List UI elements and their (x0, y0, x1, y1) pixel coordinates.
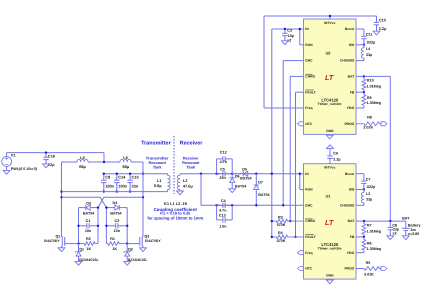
svg-text:CHRG: CHRG (305, 75, 315, 79)
svg-text:Freq: Freq (305, 106, 312, 110)
wire tank bottom row B (62, 191, 168, 193)
svg-text:NTC: NTC (305, 267, 312, 271)
node supply junction (45, 151, 47, 153)
node B row A junction (142, 173, 144, 175)
wire BAT net vertical (389, 76, 391, 221)
svg-text:BAT54: BAT54 (110, 211, 122, 215)
svg-text:GND: GND (326, 129, 334, 133)
ground (402, 236, 409, 240)
wire supply to L5/L6 (103, 153, 105, 162)
wire FBG row U1 (356, 252, 364, 254)
svg-text:BAT: BAT (348, 75, 355, 79)
wire BAT row U2 (356, 75, 390, 77)
svg-text:150n: 150n (105, 184, 114, 189)
node SW U2 (363, 44, 365, 46)
node C15 top (129, 173, 131, 175)
svg-text:C11: C11 (366, 33, 373, 37)
capacitor C12 (216, 159, 218, 174)
ground (229, 189, 236, 193)
ground (3, 170, 10, 174)
wire FB row U1 (356, 236, 364, 238)
node FAULT R4 (294, 236, 296, 238)
svg-text:LT: LT (325, 73, 334, 82)
ground (177, 191, 184, 195)
resistor R4 (272, 235, 304, 239)
node B row C junction (142, 196, 144, 198)
svg-text:Tank: Tank (153, 165, 162, 169)
capacitor C6 INTVcc bypass (329, 158, 331, 163)
svg-text:BAT54: BAT54 (258, 193, 270, 197)
svg-text:SW: SW (349, 43, 355, 47)
wire CHGSNS row U1 (356, 204, 364, 206)
svg-text:Transmitter: Transmitter (141, 140, 171, 146)
svg-text:FB: FB (350, 90, 355, 94)
svg-text:2.2µ: 2.2µ (379, 26, 387, 31)
svg-text:R1: R1 (110, 237, 115, 241)
svg-text:PWL(0 0 10u 5): PWL(0 0 10u 5) (11, 167, 38, 171)
svg-text:Boost: Boost (345, 172, 355, 176)
zener diode D2 (126, 244, 128, 252)
capacitor C14 (116, 174, 118, 181)
node C15 bottom (129, 190, 131, 192)
svg-text:D5: D5 (242, 167, 247, 171)
svg-text:Resonant: Resonant (182, 161, 200, 165)
node RUN tie U1 (299, 173, 301, 175)
wire branch vertical (200, 174, 202, 206)
svg-text:C14: C14 (118, 174, 126, 179)
svg-text:470K: 470K (277, 223, 286, 227)
wire row C left segment (62, 196, 101, 198)
svg-text:x2: x2 (392, 232, 396, 236)
capacitor C13 (216, 205, 218, 220)
svg-text:100n: 100n (118, 184, 127, 189)
wire FAULT stub (296, 91, 304, 93)
U1 GND ground (329, 278, 331, 281)
svg-text:Resonant: Resonant (149, 161, 167, 165)
node BAT C8 (389, 220, 391, 222)
svg-text:V1: V1 (11, 153, 17, 158)
resistor R10 (362, 76, 366, 92)
wire SW row U2 (356, 44, 364, 46)
ground (387, 236, 394, 240)
svg-text:U1: U1 (326, 195, 331, 199)
wire gate box1 left vertical (78, 208, 80, 244)
svg-text:Ttimer_out=2m: Ttimer_out=2m (318, 246, 342, 250)
U2 GND ground (329, 133, 331, 136)
svg-text:Ttimer_out=2m: Ttimer_out=2m (318, 102, 342, 106)
capacitor C11 (363, 29, 365, 36)
wire Boost row U2 (356, 28, 364, 30)
transistor Q2 (141, 236, 144, 238)
svg-text:47.6µ: 47.6µ (183, 184, 194, 189)
svg-text:C16: C16 (48, 154, 56, 159)
node C9 bottom (103, 190, 105, 192)
svg-text:C3: C3 (287, 29, 292, 33)
svg-text:1.01Meg: 1.01Meg (367, 229, 382, 233)
svg-text:CHGSNS: CHGSNS (340, 59, 355, 63)
svg-text:R2: R2 (86, 237, 91, 241)
node D7 bottom (255, 204, 257, 206)
node CHRG R3 (289, 220, 291, 222)
capacitor C8 (389, 221, 391, 227)
svg-text:DHC: DHC (305, 203, 313, 207)
svg-text:INTVcc: INTVcc (324, 21, 335, 25)
inductor L1 (167, 174, 169, 176)
svg-text:Boost: Boost (345, 27, 355, 31)
diode D4 (106, 207, 114, 209)
ground (282, 41, 289, 45)
op-amp U1 LTC4120 block (304, 164, 357, 279)
node BAT R10 (363, 75, 365, 77)
wire U2 IN row (272, 28, 304, 30)
svg-text:R10: R10 (367, 78, 374, 82)
svg-text:R6: R6 (367, 241, 372, 245)
port flag NTC U1 (298, 267, 304, 271)
svg-text:FBG: FBG (347, 251, 354, 255)
svg-text:BAT54: BAT54 (235, 185, 247, 189)
svg-text:3.01K: 3.01K (363, 125, 373, 129)
svg-text:NTC: NTC (305, 122, 312, 126)
capacitor C5 (217, 173, 223, 175)
voltage source V1 (6, 153, 8, 157)
node R4 left (271, 236, 273, 238)
wire tank top row A (103, 173, 168, 175)
resistor R2 (79, 242, 99, 246)
svg-text:2.2µ: 2.2µ (333, 157, 340, 161)
capacitor C1 (79, 225, 87, 227)
ground flipped (327, 145, 334, 149)
node gate2 / D2 (126, 242, 128, 244)
svg-text:CHRG: CHRG (305, 219, 315, 223)
capacitor C9 (103, 174, 105, 181)
wire RUN tie (299, 29, 301, 45)
svg-text:R5: R5 (366, 261, 371, 265)
node A row C junction (60, 196, 62, 198)
svg-text:C1: C1 (86, 219, 91, 223)
node IN row1 (271, 173, 273, 175)
svg-text:FAULT: FAULT (305, 90, 316, 94)
svg-text:5.8µ: 5.8µ (154, 183, 162, 188)
wire INTVcc net (329, 16, 331, 19)
svg-text:C5: C5 (220, 167, 225, 171)
wire SW row U1 (356, 189, 364, 191)
wire IN net vertical (271, 29, 273, 237)
resistor R6 (362, 237, 366, 253)
wire receiver row2 DHC (201, 204, 304, 206)
svg-text:PROG: PROG (344, 267, 354, 271)
svg-text:.022µ: .022µ (366, 40, 375, 44)
capacitor C15 (129, 174, 131, 181)
diode D6 (231, 174, 233, 178)
svg-text:4.7n: 4.7n (219, 208, 227, 212)
svg-text:for spacing of 10mm to 1mm: for spacing of 10mm to 1mm (147, 215, 203, 220)
svg-text:22n: 22n (219, 176, 226, 180)
wire receiver row1 (180, 173, 304, 175)
svg-text:RUN: RUN (305, 43, 313, 47)
wire gate box1 right vertical (97, 208, 99, 244)
wire row C right segment (104, 196, 143, 198)
svg-text:68µ: 68µ (123, 164, 130, 169)
node RUN tie (299, 28, 301, 30)
node BAT R7 (363, 220, 365, 222)
svg-text:Freq: Freq (305, 251, 312, 255)
ground (140, 248, 147, 252)
svg-text:FBG: FBG (347, 106, 354, 110)
svg-text:C9: C9 (105, 174, 111, 179)
svg-text:BAT: BAT (402, 216, 410, 220)
svg-text:D3: D3 (86, 201, 91, 205)
wire FB row U2 (356, 91, 364, 93)
node C4 right (231, 204, 233, 206)
svg-text:CHGSNS: CHGSNS (340, 203, 355, 207)
svg-text:FAULT: FAULT (305, 235, 316, 239)
wire FBG row U2 (356, 107, 364, 109)
svg-text:1.35Meg: 1.35Meg (367, 101, 382, 105)
ground (43, 164, 50, 168)
node C5 left (215, 173, 217, 175)
svg-text:U2: U2 (326, 52, 331, 56)
ground (373, 31, 380, 35)
svg-text:1.01Meg: 1.01Meg (367, 84, 382, 88)
svg-text:D6: D6 (235, 175, 240, 179)
op-amp U2 LTC4120 block (304, 19, 357, 134)
node SW U1 (363, 188, 365, 190)
resistor R5 (356, 267, 381, 271)
svg-text:33n: 33n (132, 184, 139, 189)
ground (75, 261, 82, 265)
svg-text:R8: R8 (367, 116, 372, 120)
svg-text:K1 L1 L2 .19: K1 L1 L2 .19 (164, 201, 188, 206)
capacitor C7 (363, 174, 365, 181)
svg-text:SW: SW (349, 188, 355, 192)
transistor Q1 (61, 236, 64, 238)
svg-text:C10: C10 (379, 18, 386, 23)
svg-text:Si4470DY: Si4470DY (44, 239, 61, 243)
node A row B junction (60, 190, 62, 192)
node FB U1 (363, 236, 365, 238)
node supply center (103, 161, 105, 163)
diode D3 (79, 207, 86, 209)
svg-text:C15: C15 (132, 174, 140, 179)
node L2 branch (200, 173, 202, 175)
port flag NTC U2 (298, 122, 304, 126)
node R3 left (271, 220, 273, 222)
wire supply row (7, 152, 104, 154)
svg-text:PROG: PROG (344, 122, 354, 126)
resistor R1 (106, 242, 127, 246)
node C4 left (215, 204, 217, 206)
svg-text:Receiver: Receiver (183, 156, 199, 160)
wire CHGSNS row U2 (356, 60, 364, 62)
inductor L4 (363, 45, 365, 48)
svg-text:1K: 1K (112, 247, 117, 251)
svg-text:C6: C6 (333, 152, 338, 156)
svg-text:IN: IN (305, 27, 309, 31)
wire CHRG net vertical (289, 76, 291, 221)
svg-text:33µ: 33µ (366, 53, 372, 57)
svg-text:D1: D1 (79, 248, 84, 252)
wire DHC stub (283, 60, 303, 62)
svg-text:68µ: 68µ (79, 164, 86, 169)
svg-text:D2: D2 (128, 248, 133, 252)
svg-text:33µ: 33µ (366, 198, 372, 202)
divider transmitter/receiver (173, 136, 175, 194)
svg-text:RUN: RUN (305, 188, 313, 192)
svg-text:1K: 1K (86, 247, 91, 251)
node C9 top (103, 173, 105, 175)
wire CHRG stub (290, 75, 303, 77)
ground (58, 248, 65, 252)
wire gate box2 left vertical (105, 208, 107, 244)
node C14 bottom (116, 190, 118, 192)
svg-text:LT: LT (325, 218, 334, 227)
node INTVcc (329, 15, 331, 17)
svg-text:1.5n: 1.5n (219, 225, 227, 229)
svg-text:BAT54: BAT54 (83, 211, 95, 215)
node DHC row2 (282, 204, 284, 206)
capacitor C16 (45, 153, 47, 158)
svg-text:10n: 10n (114, 229, 121, 233)
inductor L6 (104, 161, 120, 163)
capacitor C2 (106, 225, 115, 227)
wire gate box2 right vertical (126, 208, 128, 244)
svg-text:Tank: Tank (187, 165, 196, 169)
capacitor C4 (217, 204, 223, 206)
svg-text:.022µ: .022µ (366, 185, 375, 189)
wire DHC net vertical (282, 61, 284, 206)
port flag Freq U1 (298, 251, 304, 255)
port flag PROG U1 (381, 267, 387, 271)
svg-text:IN: IN (305, 172, 309, 176)
wire RUN tie U1 (299, 174, 301, 190)
wire node A vertical (61, 162, 63, 237)
svg-text:C12: C12 (220, 150, 227, 154)
wire BAT row U1 (356, 220, 406, 222)
inductor L3 (363, 190, 365, 193)
inductor L2 (179, 174, 181, 176)
svg-text:4.7n: 4.7n (220, 160, 228, 164)
node gate1 / D1 (77, 242, 79, 244)
svg-text:470K: 470K (277, 239, 286, 243)
wire node B vertical (142, 162, 144, 237)
svg-text:C7: C7 (366, 177, 371, 181)
svg-text:FB: FB (350, 235, 355, 239)
resistor R3 (272, 219, 304, 223)
node C14 top (116, 173, 118, 175)
svg-text:10µ: 10µ (288, 34, 294, 38)
svg-text:BAT: BAT (348, 219, 355, 223)
inductor L5 (62, 161, 78, 163)
diode D5 (232, 173, 243, 175)
capacitor C3 (284, 29, 286, 33)
svg-text:Transmitter: Transmitter (146, 156, 169, 160)
svg-text:R9: R9 (367, 96, 372, 100)
svg-text:L3: L3 (366, 192, 370, 196)
zener diode D1 (78, 244, 80, 252)
svg-text:C13: C13 (219, 213, 226, 217)
svg-text:INTVcc: INTVcc (324, 166, 335, 170)
wire Boost row U1 (356, 173, 364, 175)
node C3 (284, 28, 286, 30)
svg-text:DHC: DHC (305, 59, 313, 63)
node FB U2 (363, 91, 365, 93)
diode D7 (255, 174, 257, 185)
resistor R9 (362, 92, 366, 108)
wire FAULT net vertical (295, 92, 297, 237)
svg-text:1.35Meg: 1.35Meg (367, 247, 382, 251)
svg-text:3.01K: 3.01K (364, 273, 374, 277)
battery source (405, 221, 407, 228)
svg-text:R3: R3 (278, 215, 283, 219)
capacitor C10 (376, 16, 378, 22)
svg-text:R7: R7 (367, 223, 372, 227)
node D7 top (255, 173, 257, 175)
svg-text:Receiver: Receiver (180, 140, 204, 146)
node C5 right (231, 173, 233, 175)
svg-text:BAT54: BAT54 (240, 176, 252, 180)
resistor R8 (356, 122, 381, 126)
svg-text:C2: C2 (114, 219, 119, 223)
resistor R7 (362, 221, 366, 237)
ground (124, 261, 131, 265)
svg-text:Si4470DY: Si4470DY (145, 239, 162, 243)
svg-text:D7: D7 (258, 181, 263, 185)
svg-text:10n: 10n (85, 229, 92, 233)
svg-text:GND: GND (326, 274, 334, 278)
port flag PROG U2 (381, 122, 387, 126)
